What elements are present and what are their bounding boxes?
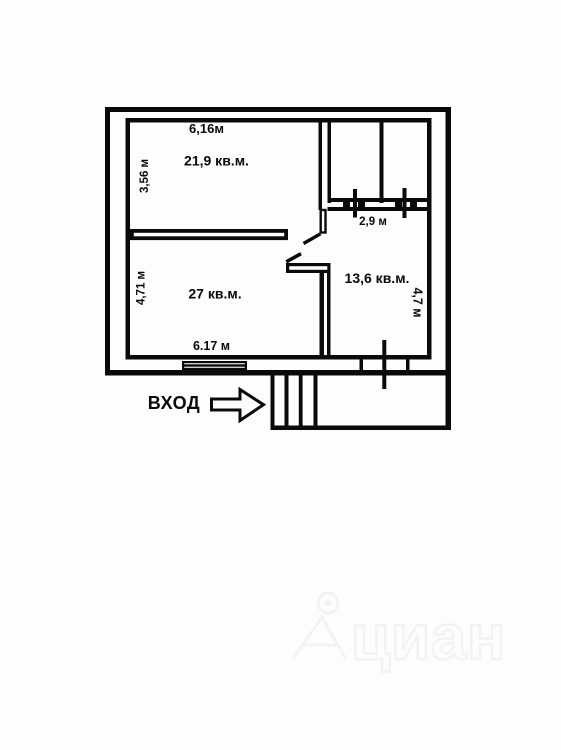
watermark pin circle — [318, 593, 338, 613]
porch bar 1 — [271, 375, 275, 430]
watermark mountain — [293, 617, 346, 659]
svg-text:2,9 м: 2,9 м — [359, 216, 387, 228]
room 13.6 top wall band — [288, 265, 329, 272]
hallway wall right line — [328, 120, 332, 203]
svg-text:4,7 м: 4,7 м — [411, 287, 425, 317]
svg-text:ВХОД: ВХОД — [148, 393, 200, 413]
porch bar 3 — [299, 375, 303, 430]
box 2.9 window band upper line — [328, 198, 432, 202]
window W2 right block — [410, 202, 417, 207]
outer wall bottom — [105, 370, 451, 376]
svg-text:3,56 м: 3,56 м — [139, 159, 151, 193]
window W3 axis tick — [382, 340, 386, 389]
porch bar 2 — [285, 375, 289, 430]
inner top wall (rooms 21.9 and 2.9 box) — [126, 118, 432, 123]
window W2 axis tick — [403, 188, 407, 218]
svg-text:27 кв.м.: 27 кв.м. — [188, 286, 241, 302]
inner right wall (box 2.9 and room 13.6) — [427, 118, 432, 360]
outer wall right (continues as porch right edge) — [446, 107, 452, 430]
hallway wall left line — [319, 120, 323, 210]
svg-text:6.17 м: 6.17 м — [193, 339, 230, 353]
outer wall left — [105, 107, 110, 375]
porch bar 4 — [314, 375, 318, 430]
window W1 axis tick — [353, 189, 357, 218]
room 13.6 left wall line B — [327, 273, 331, 356]
window in bottom wall of room 27 — [183, 362, 246, 369]
svg-text:4,71 м: 4,71 м — [136, 271, 148, 305]
porch bottom edge — [271, 426, 452, 431]
svg-text:циан: циан — [351, 601, 506, 673]
door jamb hallway to room 27 — [321, 210, 326, 233]
inner bottom wall (rooms 27 and 13.6) — [126, 355, 432, 360]
window W3 right cap — [406, 360, 410, 371]
window W1 right block — [358, 202, 365, 207]
door leaf hallway to room 27 — [304, 234, 321, 244]
room 13.6 left wall line A — [320, 273, 325, 356]
window middle glass line — [184, 364, 245, 366]
box 2.9 divider — [380, 122, 384, 203]
inner left wall (rooms 21.9 and 27) — [126, 118, 131, 360]
svg-text:6,16м: 6,16м — [189, 121, 224, 136]
svg-text:21,9 кв.м.: 21,9 кв.м. — [184, 152, 249, 168]
window W3 left cap — [360, 360, 364, 371]
entrance arrow — [212, 390, 264, 421]
window W2 left block — [395, 202, 402, 207]
door leaf room 13.6 — [286, 254, 301, 262]
box 2.9 window band lower line — [328, 207, 432, 211]
divider wall between rooms 21.9 and 27 — [132, 231, 286, 238]
outer wall top — [105, 107, 451, 112]
window W1 left block — [343, 202, 350, 207]
watermark cian logo — [293, 593, 346, 659]
watermark pin dot — [325, 600, 331, 606]
svg-text:13,6 кв.м.: 13,6 кв.м. — [345, 270, 410, 286]
